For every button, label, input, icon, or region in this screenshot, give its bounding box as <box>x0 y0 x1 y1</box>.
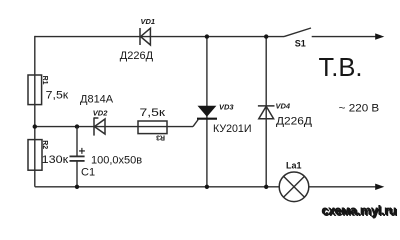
lamp La1 <box>279 172 309 202</box>
node junction left-middle <box>33 124 37 128</box>
svg-text:La1: La1 <box>286 160 302 170</box>
svg-text:R1: R1 <box>41 76 48 85</box>
wire top rail <box>35 36 284 38</box>
svg-text:Т.В.: Т.В. <box>319 52 363 82</box>
svg-text:~ 220 В: ~ 220 В <box>339 102 380 114</box>
svg-text:7,5к: 7,5к <box>140 107 166 119</box>
arrow bottom <box>375 184 384 190</box>
diode VD1 <box>140 28 150 45</box>
svg-text:R3: R3 <box>156 134 165 141</box>
svg-text:VD2: VD2 <box>93 109 108 118</box>
node junction C1 bottom <box>75 185 79 189</box>
node junction top VD3 <box>205 34 209 38</box>
svg-text:Д814А: Д814А <box>80 93 114 105</box>
wire left rail <box>34 36 36 187</box>
node junction C1 top <box>75 124 79 128</box>
wire middle rail <box>35 126 193 128</box>
switch S1 <box>284 28 376 37</box>
svg-text:VD3: VD3 <box>219 103 234 112</box>
thyristor VD3 <box>193 106 217 127</box>
svg-text:Д226Д: Д226Д <box>276 115 313 127</box>
capacitor C1 <box>70 127 85 187</box>
svg-text:схема.myl.ru: схема.myl.ru <box>322 204 397 218</box>
resistor R3 <box>138 121 167 134</box>
node junction VD3 bottom <box>205 185 209 189</box>
watermark схема.myl.ru <box>321 203 398 219</box>
wire VD3 anode/cathode rail <box>206 37 208 187</box>
svg-text:Д226Д: Д226Д <box>120 50 154 62</box>
zener diode VD2 <box>94 117 105 135</box>
svg-text:S1: S1 <box>295 39 306 49</box>
wire lamp to arrow <box>309 186 376 188</box>
svg-text:130к: 130к <box>42 154 69 166</box>
resistor R1 <box>28 75 42 105</box>
wire bottom rail <box>35 186 279 188</box>
node junction top VD4 <box>264 34 268 38</box>
node junction VD4 bottom <box>264 185 268 189</box>
wire VD4 rail <box>265 37 267 187</box>
resistor R2 <box>28 140 42 171</box>
svg-text:VD4: VD4 <box>276 102 291 111</box>
arrow to TV top <box>375 33 384 39</box>
svg-text:100,0х50в: 100,0х50в <box>91 155 142 167</box>
svg-text:7,5к: 7,5к <box>46 90 69 102</box>
svg-text:R2: R2 <box>41 140 48 149</box>
diode VD4 <box>258 106 275 119</box>
svg-text:КУ201И: КУ201И <box>213 123 252 135</box>
svg-text:С1: С1 <box>81 167 95 179</box>
svg-text:VD1: VD1 <box>141 17 156 26</box>
